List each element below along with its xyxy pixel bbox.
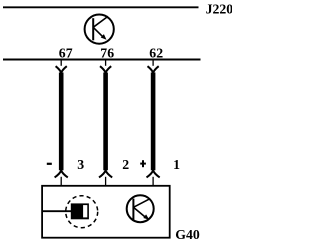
wire 3: J220/62 to G40 pin 1 <box>147 60 160 186</box>
wire: J220 bus line (top) <box>3 6 199 8</box>
svg-text:3: 3 <box>77 157 84 172</box>
svg-text:G40: G40 <box>175 227 200 242</box>
label J220 <box>206 1 234 16</box>
svg-text:1: 1 <box>173 157 180 172</box>
svg-text:J220: J220 <box>206 1 232 16</box>
svg-text:2: 2 <box>122 157 129 172</box>
sensor element (pickup, dashed circle) <box>66 196 98 228</box>
svg-text:62: 62 <box>149 45 163 60</box>
pin label 3 <box>77 157 84 172</box>
polarity label - (minus, wire 1) <box>47 163 52 165</box>
pin label 67 <box>59 45 73 60</box>
svg-text:76: 76 <box>100 45 114 60</box>
component G40 box (Hall sender) <box>42 186 170 238</box>
svg-text:67: 67 <box>59 45 73 60</box>
pin label 1 <box>173 157 180 172</box>
pin label 62 <box>149 45 163 60</box>
shield symbol (top, screened cable) <box>85 15 114 44</box>
wire: connector bus line (J220 plug) <box>3 59 201 61</box>
pin label 2 <box>122 157 129 172</box>
wire 1: J220/67 to G40 pin 3 <box>55 60 68 186</box>
sensor element lead wire <box>42 210 71 212</box>
pin label 76 <box>100 45 114 60</box>
shield symbol (inside G40) <box>127 195 154 222</box>
wire 2: J220/76 to G40 pin 2 <box>99 60 112 186</box>
polarity label + (plus, wire 3) <box>140 160 146 167</box>
label G40 <box>175 227 200 242</box>
